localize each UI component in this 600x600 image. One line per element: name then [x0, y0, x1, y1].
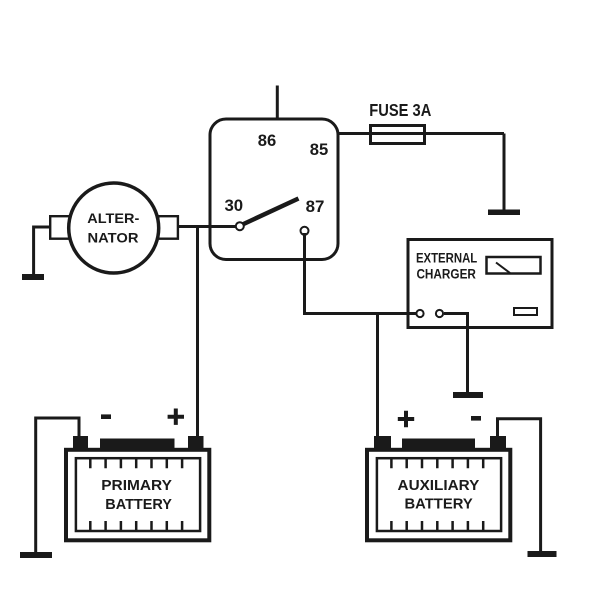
charger terminal circle 2 [436, 310, 443, 317]
svg-text:CHARGER: CHARGER [416, 267, 476, 282]
svg-text:30: 30 [224, 196, 243, 215]
external charger box [408, 240, 552, 328]
charger terminal circle 1 [416, 310, 423, 317]
wire: junction down to primary battery + terminal [196, 227, 199, 441]
switch arm (30 to 87) [243, 199, 299, 225]
wire: alternator left terminal to ground [34, 227, 50, 275]
primary battery positive terminal [188, 436, 204, 449]
auxiliary battery positive terminal [374, 436, 391, 449]
auxiliary battery plus sign [398, 411, 414, 427]
alternator body [69, 183, 159, 273]
svg-text:85: 85 [310, 140, 329, 159]
alternator terminal (right) [158, 216, 178, 239]
primary battery inner liner [76, 458, 200, 531]
svg-text:BATTERY: BATTERY [405, 497, 473, 513]
auxiliary battery case [367, 450, 510, 541]
ground (charger) [453, 392, 483, 398]
primary battery plus sign [168, 409, 184, 425]
primary battery cell ticks bottom [90, 521, 182, 531]
ground (auxiliary battery) [528, 551, 557, 557]
charger indicator slot [514, 308, 537, 315]
auxiliary battery negative terminal [490, 436, 506, 449]
svg-text:AUXILIARY: AUXILIARY [398, 478, 480, 494]
auxiliary battery top cap [402, 439, 475, 450]
primary battery cell ticks top [90, 458, 182, 468]
svg-text:87: 87 [306, 197, 325, 216]
primary battery negative terminal [73, 436, 88, 449]
wire: auxiliary battery - terminal to ground [498, 419, 541, 552]
svg-text:EXTERNAL: EXTERNAL [416, 251, 477, 266]
relay contact pin 87 [301, 227, 309, 235]
svg-text:ALTER-: ALTER- [87, 210, 139, 226]
charger meter face [487, 257, 541, 274]
primary battery case [66, 450, 209, 541]
wire: relay pin 87 down then right to charger [305, 233, 417, 314]
relay contact pin 30 [236, 222, 244, 230]
auxiliary battery inner liner [377, 458, 501, 531]
svg-text:FUSE 3A: FUSE 3A [369, 100, 431, 120]
ground (fuse branch) [488, 210, 520, 216]
primary battery minus sign [101, 414, 111, 419]
wire: junction down to auxiliary battery + terminal [376, 314, 379, 441]
auxiliary battery minus sign [471, 416, 481, 421]
wire: vertical down from fuse line to ground [503, 134, 506, 211]
auxiliary battery cell ticks bottom [391, 521, 483, 531]
auxiliary battery cell ticks top [391, 458, 483, 468]
ground (primary battery) [20, 552, 52, 558]
svg-text:PRIMARY: PRIMARY [101, 478, 172, 494]
alternator terminal (left) [50, 216, 70, 239]
primary battery top cap [100, 439, 175, 450]
relay K1 body [210, 119, 338, 260]
charger meter needle [496, 263, 510, 274]
wire: relay coil terminal 86 stub [276, 86, 279, 120]
svg-text:86: 86 [258, 131, 277, 150]
ground (alternator) [22, 274, 44, 280]
wire: charger terminal 2 to ground [444, 314, 468, 393]
wire: alternator right terminal to relay pin 30 [178, 225, 237, 228]
svg-text:NATOR: NATOR [88, 230, 139, 246]
wire: relay 85 to fuse to ground, horizontal [338, 132, 504, 135]
fuse F1 body [371, 126, 425, 144]
wire: primary battery - terminal to ground [36, 418, 79, 553]
svg-text:BATTERY: BATTERY [105, 497, 172, 513]
